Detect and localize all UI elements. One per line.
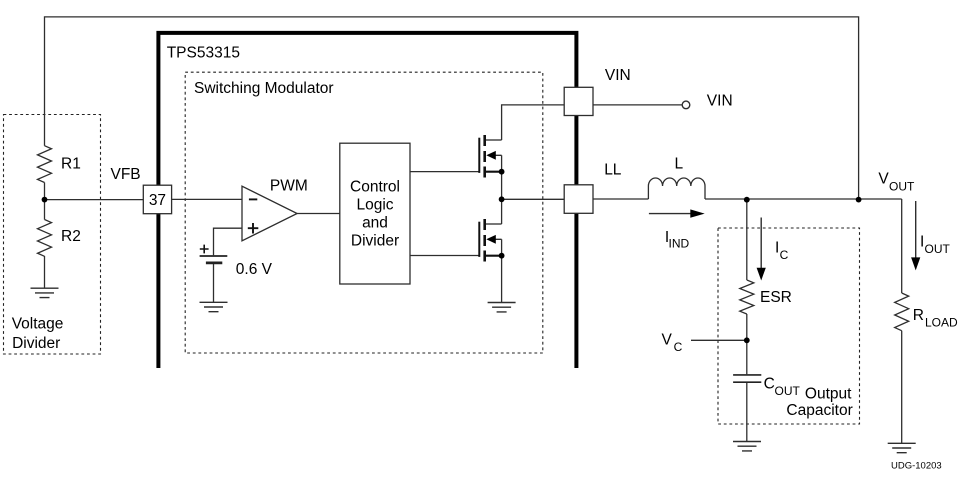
svg-text:Control: Control (350, 179, 400, 196)
svg-text:Output: Output (805, 386, 852, 403)
svg-text:Switching Modulator: Switching Modulator (194, 80, 334, 97)
svg-text:VIN: VIN (707, 93, 733, 110)
svg-text:V: V (662, 332, 673, 349)
svg-text:Divider: Divider (351, 233, 399, 250)
svg-text:LL: LL (604, 162, 622, 179)
svg-text:C: C (780, 248, 789, 262)
svg-text:Voltage: Voltage (12, 316, 64, 333)
svg-text:and: and (362, 215, 388, 232)
svg-text:Capacitor: Capacitor (786, 402, 852, 419)
svg-text:C: C (674, 340, 683, 354)
svg-text:0.6 V: 0.6 V (236, 261, 273, 278)
svg-text:TPS53315: TPS53315 (167, 44, 240, 61)
svg-text:OUT: OUT (775, 384, 801, 398)
svg-text:C: C (764, 376, 775, 393)
svg-text:PWM: PWM (270, 178, 308, 195)
svg-text:OUT: OUT (925, 242, 951, 256)
svg-text:Logic: Logic (356, 197, 393, 214)
svg-text:LOAD: LOAD (925, 316, 958, 330)
svg-text:37: 37 (149, 192, 166, 209)
svg-text:R1: R1 (61, 156, 81, 173)
svg-text:IND: IND (669, 237, 690, 251)
svg-text:VFB: VFB (111, 166, 141, 183)
svg-text:L: L (675, 156, 684, 173)
svg-text:V: V (878, 171, 889, 188)
svg-text:R2: R2 (61, 228, 81, 245)
svg-text:ESR: ESR (760, 289, 792, 306)
svg-text:VIN: VIN (605, 67, 631, 84)
svg-text:UDG-10203: UDG-10203 (891, 461, 942, 472)
svg-text:Divider: Divider (12, 335, 60, 352)
svg-text:R: R (913, 307, 924, 324)
svg-text:OUT: OUT (889, 180, 915, 194)
